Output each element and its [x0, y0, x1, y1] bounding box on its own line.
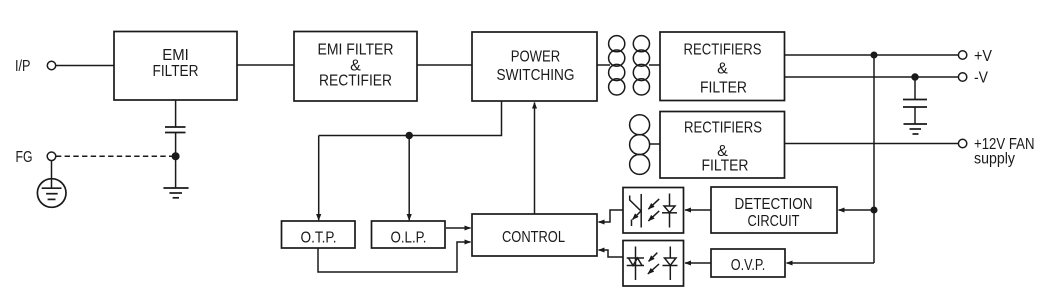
block CONTROL: [472, 214, 597, 256]
wire junction to detection circuit: [839, 209, 875, 211]
terminal I/P: [15, 58, 56, 75]
block DETECTION CIRCUIT: [711, 187, 837, 233]
transformer T1 primary winding: [609, 36, 625, 95]
svg-text:O.L.P.: O.L.P.: [391, 230, 427, 247]
earth ground symbol: [37, 179, 66, 208]
svg-text:FG: FG: [16, 149, 33, 166]
svg-text:FILTER: FILTER: [700, 80, 747, 97]
ground (output side): [904, 124, 928, 134]
wire EMI filter &amp; rectifier to power switching: [417, 64, 472, 66]
svg-text:FILTER: FILTER: [702, 158, 749, 175]
optocoupler U2 box: [623, 241, 684, 287]
node -V junction: [912, 74, 918, 80]
optocoupler U1 box: [623, 188, 684, 234]
svg-text:EMI FILTER: EMI FILTER: [318, 42, 394, 59]
svg-text:&: &: [717, 61, 728, 78]
wire I/P to EMI filter: [56, 65, 114, 67]
transformer T1 secondary winding (fan supply): [630, 115, 650, 175]
wire O.L.P. to control: [446, 227, 471, 229]
wire FG to earth: [51, 161, 53, 189]
wire down to O.V.P.: [787, 262, 875, 264]
node FG junction: [172, 153, 179, 160]
wire -V output: [785, 76, 959, 78]
svg-text:EMI: EMI: [162, 47, 189, 64]
svg-text:FILTER: FILTER: [153, 63, 199, 80]
wire O.T.P. to control: [318, 242, 471, 272]
svg-text:+V: +V: [974, 48, 992, 65]
wire power switching to transformer primary: [597, 64, 610, 66]
wire fan winding to rectifiers &amp; filter 2: [649, 143, 660, 145]
capacitor C2 (output filter) lead: [914, 77, 916, 99]
optocoupler U2 diode: [663, 247, 678, 281]
svg-text:O.V.P.: O.V.P.: [731, 257, 766, 274]
svg-text:CONTROL: CONTROL: [502, 229, 565, 246]
block O.L.P.: [372, 221, 446, 248]
svg-text:O.T.P.: O.T.P.: [301, 230, 337, 247]
svg-text:SWITCHING: SWITCHING: [497, 67, 575, 84]
optocoupler U2 light arrows: [648, 253, 659, 274]
wire branch down to O.T.P.: [318, 136, 320, 221]
block RECTIFIERS & FILTER (fan supply): [660, 112, 785, 179]
optocoupler U1 phototransistor: [630, 194, 642, 228]
block EMI FILTER: [114, 32, 237, 101]
svg-text:RECTIFIERS: RECTIFIERS: [684, 120, 762, 137]
wire C2 to ground: [914, 107, 916, 124]
block POWER SWITCHING: [472, 32, 597, 101]
optocoupler U1 LED: [662, 194, 677, 228]
svg-text:RECTIFIERS: RECTIFIERS: [684, 42, 762, 59]
block RECTIFIERS & FILTER (main output): [660, 32, 785, 101]
ground (EMI side): [163, 188, 188, 198]
capacitor C2 plates: [903, 100, 927, 108]
node OLP branch junction: [406, 133, 412, 139]
optocoupler U2 photo-triac: [627, 247, 644, 281]
capacitor C1 plates: [165, 127, 186, 133]
node detection junction: [871, 207, 877, 213]
terminal FG: [16, 149, 56, 166]
block O.T.P.: [282, 221, 356, 248]
svg-text:supply: supply: [974, 151, 1015, 168]
svg-text:-V: -V: [974, 70, 988, 87]
node +V junction: [871, 52, 877, 58]
wire power switching to OTP/OLP bus: [319, 101, 502, 136]
block O.V.P.: [711, 249, 785, 277]
wire transformer secondary to rectifiers &amp; filter 1: [649, 64, 660, 66]
terminal +V: [958, 48, 992, 65]
svg-text:RECTIFIER: RECTIFIER: [319, 73, 392, 90]
wire FG dashed to junction: [56, 155, 176, 157]
svg-text:DETECTION: DETECTION: [735, 196, 813, 213]
svg-text:POWER: POWER: [511, 49, 561, 66]
wire O.V.P. to optocoupler 2: [685, 262, 711, 264]
wire EMI filter to EMI filter &amp; rectifier: [238, 64, 295, 66]
svg-text:CIRCUIT: CIRCUIT: [748, 213, 800, 230]
wire C1 to ground: [175, 133, 177, 189]
capacitor C1 (EMI filter to FG) lead: [175, 100, 177, 127]
optocoupler U1 light arrows: [648, 199, 659, 221]
terminal +12V FAN supply: [958, 136, 1034, 168]
block EMI FILTER & RECTIFIER: [294, 32, 417, 102]
transformer T1 secondary winding (main): [633, 36, 649, 95]
wire +12V fan supply output: [785, 143, 959, 145]
wire +V output: [785, 54, 959, 56]
wire optocoupler U1 to control: [599, 210, 624, 222]
wire control to power switching (feedback): [534, 103, 536, 215]
wire branch down to O.L.P.: [408, 136, 410, 221]
terminal -V: [958, 70, 988, 87]
wire optocoupler U2 to control: [599, 250, 624, 257]
wire detection circuit to optocoupler 1: [685, 209, 711, 211]
wire +V junction down to detection circuit / OVP: [873, 55, 875, 263]
svg-text:I/P: I/P: [15, 58, 31, 75]
